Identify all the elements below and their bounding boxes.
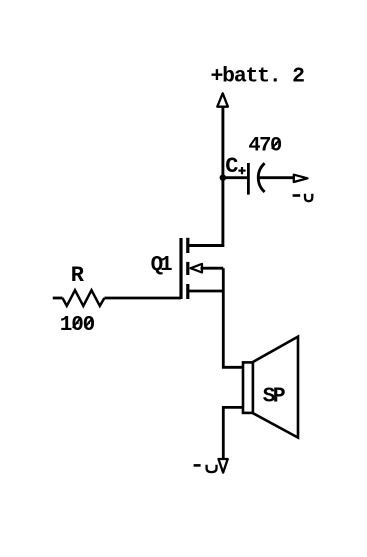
gate bar xyxy=(179,238,182,299)
left lead xyxy=(53,297,63,300)
svg-text:470: 470 xyxy=(248,135,282,158)
svg-text:100: 100 xyxy=(60,314,95,337)
power arrow -v down xyxy=(219,459,228,473)
capacitor C : flat plate xyxy=(247,163,250,195)
transistor Q1 (MOSFET) xyxy=(181,238,202,299)
wire source stub xyxy=(189,290,224,293)
svg-text:C: C xyxy=(225,154,238,179)
svg-text:Q1: Q1 xyxy=(151,254,173,277)
wire right rail down to speaker top xyxy=(223,268,242,367)
speaker SP xyxy=(243,337,298,438)
wire node down to drain of Q1 xyxy=(189,178,223,246)
power arrow +batt xyxy=(217,93,228,106)
driver rectangle xyxy=(243,362,253,413)
node junction dot xyxy=(220,174,227,181)
slashes of zeros in 100 xyxy=(73,318,92,328)
svg-text:+batt. 2: +batt. 2 xyxy=(211,64,306,88)
wire body arrow to right rail xyxy=(201,267,224,270)
wire node to capacitor C xyxy=(223,176,248,179)
zigzag xyxy=(63,290,105,306)
wire resistor to gate of Q1 xyxy=(104,297,181,300)
channel bar drain xyxy=(186,238,189,253)
wire speaker bottom to -v arrow xyxy=(223,407,243,458)
resistor R xyxy=(53,290,105,306)
wire +batt arrow to node xyxy=(221,108,224,178)
channel bar body xyxy=(186,262,189,275)
wire capacitor to -v arrow xyxy=(259,176,293,179)
horn xyxy=(252,337,298,438)
slash of zero in 470 xyxy=(272,139,280,149)
power arrow -v right xyxy=(294,175,308,182)
label + polarity of C xyxy=(238,167,245,174)
label -v (bottom) xyxy=(194,465,217,472)
body arrow xyxy=(191,264,202,273)
svg-text:SP: SP xyxy=(263,384,286,408)
channel bar source xyxy=(186,284,189,299)
label -v (right) xyxy=(293,194,313,202)
svg-text:R: R xyxy=(71,263,85,288)
capacitor C : curved plate xyxy=(258,163,264,192)
